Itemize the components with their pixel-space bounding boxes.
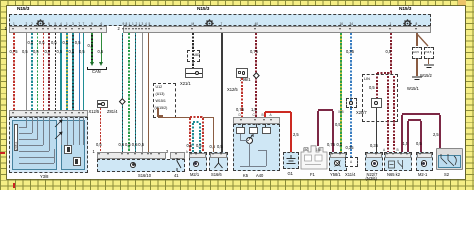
ground connector box 2 xyxy=(424,47,434,59)
pin number xyxy=(91,22,93,27)
drawing sheet xyxy=(7,6,465,179)
wire outer loop right leg xyxy=(439,115,440,148)
pin S16/10 c2 xyxy=(175,153,177,155)
wire wire X25/7 to N22/7 xyxy=(376,108,377,152)
W15/1 label xyxy=(407,87,419,92)
S16/10 label xyxy=(138,174,151,179)
wire loop tq/wh left leg xyxy=(192,123,193,152)
wire Y3/8 sensor lead xyxy=(78,117,81,145)
pin A40 xyxy=(263,119,265,121)
gear icon N15/3 xyxy=(205,15,214,33)
M2/1 label xyxy=(190,173,199,178)
connector X11/4 xyxy=(345,157,358,167)
pin S16/10 xyxy=(150,153,152,155)
wire brown stub in U12 box xyxy=(157,108,158,117)
Z81/4 label xyxy=(107,110,117,115)
wire Y3/8 internal link 3 xyxy=(19,144,44,147)
wire gauge label xyxy=(187,144,193,149)
CAN arrow 1 xyxy=(90,62,94,66)
pin strip1 xyxy=(54,28,56,30)
splice Z81/4 diamond xyxy=(119,98,125,104)
ground symbol W15/1 xyxy=(411,76,423,82)
S16/10 strip1 designator xyxy=(93,150,95,155)
orange corner cell xyxy=(458,0,466,6)
pin number xyxy=(123,22,125,27)
wire feed wire mr/wh upper xyxy=(255,33,256,117)
LIN bus dashed box xyxy=(362,74,398,122)
wire left wire tqbk at x73 xyxy=(72,33,73,110)
LIN label xyxy=(364,77,370,82)
A40 gauge symbol xyxy=(246,137,253,144)
pin Y3/8 xyxy=(65,112,67,114)
pin strip2 xyxy=(389,28,391,30)
red tick bottom border xyxy=(13,183,15,188)
pin number xyxy=(13,22,15,27)
S2 switch symbol xyxy=(438,152,462,169)
wire left wire gy at x26.5 xyxy=(26,33,27,110)
pin number xyxy=(149,22,151,27)
F1 internal labels xyxy=(303,148,309,153)
wire loop rd/wh right leg xyxy=(202,118,203,152)
wire gauge label xyxy=(416,142,422,147)
wire Y3/8 sensor lead xyxy=(72,117,75,145)
wire loop rd/wh left leg xyxy=(189,118,190,152)
gear icon N15/3 xyxy=(403,15,412,33)
wire left wire tq at x83.5 xyxy=(83,33,84,110)
wire gauge label xyxy=(346,50,354,55)
wire Y3/8 internal wire b1 xyxy=(53,155,56,163)
wire A40 internal 1 xyxy=(241,124,244,127)
wire shielded wire bk/wh xyxy=(192,33,193,68)
connector X12/5 b xyxy=(236,68,248,78)
wire A40 internal 9 xyxy=(265,150,268,166)
wire cluster wire tqbk xyxy=(122,33,123,152)
wire left wire rdwh at x14 xyxy=(13,33,14,110)
pin letter B xyxy=(397,148,399,153)
pin N65k2 xyxy=(392,153,394,155)
K5 label xyxy=(243,174,248,179)
wire gauge label xyxy=(10,50,18,55)
S16/10 connector strip 2 xyxy=(170,152,185,159)
K5/A40 connector strip xyxy=(233,117,280,124)
pin letters xyxy=(239,113,241,118)
control unit N15/3 box xyxy=(9,14,431,26)
wire bl/wh wire to X11/4 xyxy=(350,33,351,157)
pin number xyxy=(83,22,85,27)
pin number xyxy=(340,22,344,27)
M2-1 motor symbol xyxy=(421,160,428,167)
G1 symbol xyxy=(285,155,297,166)
wire left wire tq at x61 xyxy=(60,33,61,110)
pin number xyxy=(255,22,259,27)
N65k2 relay symbol xyxy=(387,159,409,170)
wire loop tq/wh top xyxy=(193,121,200,122)
pin number xyxy=(136,22,138,27)
pin number xyxy=(60,22,62,27)
wire gauge label xyxy=(69,50,75,55)
label N15/3 right xyxy=(399,8,411,13)
wire Y3/8 internal wire b0 xyxy=(53,149,56,157)
Z96/1 label xyxy=(240,78,250,83)
wire outer loop left leg xyxy=(401,115,402,152)
pin strip2 xyxy=(132,28,134,30)
wire Y3/8 internal wire 0 xyxy=(25,117,28,127)
S2 inner blue xyxy=(438,155,461,168)
wire gauge label xyxy=(51,41,57,46)
wire gauge label xyxy=(63,41,69,46)
wire X12/5 red wire xyxy=(100,108,101,153)
strip 2 designator xyxy=(118,27,120,32)
pin number xyxy=(66,22,68,27)
wire gauge label xyxy=(369,86,375,91)
wire left wire rdwh at x43.3 xyxy=(43,33,44,110)
pin number xyxy=(416,22,418,27)
red tick left border xyxy=(0,152,5,154)
wire CAN-L gn/bk xyxy=(91,33,92,62)
Y3/8 rotated text xyxy=(14,142,19,150)
S16/10 strip2 designator xyxy=(166,150,168,155)
wire bl/wh wire through X25 xyxy=(350,99,351,107)
A40 fuse sub-box 1 xyxy=(236,127,245,134)
wire gauge label xyxy=(293,133,299,138)
pin number xyxy=(139,22,141,27)
S16/6 component box xyxy=(209,152,228,171)
pin strip2 xyxy=(141,28,143,30)
wire inner loop right leg xyxy=(420,121,421,152)
wire Y3/8 sensor lead xyxy=(60,117,63,145)
wire gauge label xyxy=(138,143,144,148)
wire gauge label xyxy=(335,123,341,128)
X25/7 label xyxy=(356,111,367,116)
wire A40 internal 6 xyxy=(252,134,255,137)
pin strip1 xyxy=(47,28,49,30)
pin strip2 xyxy=(254,28,256,30)
wire brown link U12 stub xyxy=(158,115,163,116)
wire cluster wire tqbk xyxy=(135,33,136,152)
wire inner loop left leg xyxy=(407,121,408,152)
wire ground wire W15/1 upper xyxy=(416,33,417,46)
pin number xyxy=(221,22,223,27)
Y3/8 outer dashed box xyxy=(9,117,88,173)
wire feed wire rd/wh from X12/5 xyxy=(241,78,242,117)
M2-1 component box xyxy=(416,152,433,171)
wire A40 internal 5 xyxy=(240,139,249,142)
wire brown ground wire drop to S16/6 xyxy=(213,118,214,153)
wire A40 internal 10 xyxy=(258,149,266,152)
K5/A40 dashed box xyxy=(233,124,280,171)
wire gauge label xyxy=(39,41,45,46)
pin N65k2 xyxy=(406,153,408,155)
wire Y3/8 internal link b0 xyxy=(19,156,55,159)
wire gauge label xyxy=(75,41,81,46)
wire A40 internal 7 xyxy=(248,143,251,166)
pin M2/1 xyxy=(195,153,197,155)
pin strip1 xyxy=(59,28,61,30)
pin number xyxy=(42,22,44,27)
N3/6 label xyxy=(366,177,377,182)
pin strip1 xyxy=(71,28,73,30)
G1 battery box xyxy=(283,152,299,169)
pin number xyxy=(142,22,144,27)
wire cluster wire gy xyxy=(142,33,143,152)
pin N22/7 xyxy=(375,153,377,155)
wire Y3/8 internal link b1 xyxy=(19,162,55,165)
wire loop tq/wh right leg xyxy=(199,123,200,152)
wire Y3/8 internal link 2 xyxy=(19,138,38,141)
pin S16/6 xyxy=(220,153,222,155)
wire gauge label xyxy=(251,108,257,113)
pin Y3/8 xyxy=(47,112,49,114)
wire brown ground wire horizontal xyxy=(158,117,214,118)
wire Y3/8 internal wire 1 xyxy=(31,117,34,133)
pin strip1 xyxy=(12,28,14,30)
X12/5 b label xyxy=(227,88,238,93)
wire gauge label xyxy=(370,144,378,149)
wire gauge label xyxy=(119,143,125,148)
pin strip1 xyxy=(42,28,44,30)
wire gauge label xyxy=(196,144,202,149)
pin strip2 xyxy=(220,28,222,30)
connector strip 2 of N15/3 xyxy=(123,26,431,33)
X25 label xyxy=(338,110,344,115)
CAN arrow 2 xyxy=(99,62,103,66)
wire gauge label xyxy=(88,44,94,49)
pin strip2 xyxy=(415,28,417,30)
N22/7 component box xyxy=(365,152,383,171)
wire gauge label xyxy=(79,50,85,55)
ground connector box 1 xyxy=(412,47,422,59)
A40 label xyxy=(256,174,263,179)
41 label xyxy=(174,174,179,179)
pin number xyxy=(37,22,39,27)
wire loop rd/wh top xyxy=(190,116,203,117)
X12/5 label xyxy=(89,110,100,115)
pin strip1 xyxy=(65,28,67,30)
Y3/8 variable arrows xyxy=(53,119,65,141)
S16/6 label xyxy=(211,173,222,178)
CAN brace xyxy=(87,67,107,70)
wire gauge label xyxy=(327,143,335,148)
pin strip2 xyxy=(191,28,193,30)
wire LIN maroon horizontal xyxy=(377,72,392,73)
pin Y3/8 xyxy=(12,112,14,114)
wire gauge label xyxy=(22,50,28,55)
wire gauge label xyxy=(337,143,343,148)
wire gauge label xyxy=(346,146,354,151)
wire Y3/8 internal link 4 xyxy=(19,150,50,153)
Y3/8 connector strip xyxy=(9,110,88,117)
N22/7 label xyxy=(367,173,378,178)
A40 fuse sub-box 3 xyxy=(262,127,271,134)
wire left wire grwh at x37.5 xyxy=(37,33,38,110)
wire gauge label xyxy=(28,41,34,46)
pin number xyxy=(129,22,131,27)
pin strip2 xyxy=(148,28,150,30)
connector X21/1 xyxy=(185,68,203,78)
wire gauge label xyxy=(125,143,131,148)
wire A40 internal 8 xyxy=(240,165,266,168)
wire gauge label xyxy=(236,108,244,113)
wire inner loop top xyxy=(408,119,421,120)
pin number xyxy=(350,22,354,27)
connector X25 on wire xyxy=(346,98,357,108)
pin number xyxy=(78,22,80,27)
wire gauge label xyxy=(433,133,439,138)
label N15/3 middle xyxy=(197,8,209,13)
wire black wire strip2 to S16/6 xyxy=(221,33,222,152)
G1 label xyxy=(288,172,293,177)
Y58/1 symbol xyxy=(334,160,340,166)
Y3/8 left solenoid sub-box xyxy=(12,120,57,170)
pin S16/10 xyxy=(134,153,136,155)
pin Y3/8 xyxy=(82,112,84,114)
S16/10 symbol xyxy=(130,162,136,168)
pin Y3/8 xyxy=(54,112,56,114)
wire gauge label xyxy=(57,50,63,55)
border grid frame xyxy=(0,0,474,190)
pin Y3/8 xyxy=(59,112,61,114)
pin M2-1 xyxy=(419,153,421,155)
wire LIN maroon drop to X25/7 xyxy=(376,73,377,98)
pin S16/10 xyxy=(107,153,109,155)
wire Y3/8 internal wire 2 xyxy=(36,117,39,139)
wire Y3/8 internal link 1 xyxy=(19,132,33,135)
wire A40 internal 3 xyxy=(264,124,267,127)
wire LIN pair wire B xyxy=(393,76,394,152)
pin strip1 xyxy=(30,28,32,30)
Y3/8 internal terminal box xyxy=(14,124,18,151)
wire gauge label xyxy=(386,50,392,55)
wire cluster wire grwh xyxy=(128,33,129,152)
CAN label xyxy=(92,70,101,75)
Y58/1 label xyxy=(330,173,341,178)
pin S16/10 xyxy=(158,153,160,155)
wire Y3/8 sensor lead xyxy=(82,117,85,145)
M2/1 component box xyxy=(189,152,207,171)
pin S16/10 xyxy=(98,153,100,155)
gear icon N15/3 xyxy=(36,15,45,33)
shield box U87 xyxy=(187,50,200,62)
wire A40 internal 4 xyxy=(239,134,242,140)
pin strip2 xyxy=(128,28,130,30)
pin number xyxy=(31,22,33,27)
splice Z96/1 diamond xyxy=(253,72,259,78)
wire A40 internal 2 xyxy=(255,124,258,127)
ground symbol W15/2 xyxy=(423,64,435,70)
pin strip1 xyxy=(82,28,84,30)
Y3/8 label xyxy=(40,175,48,180)
pin A40 xyxy=(254,119,256,121)
wire gauge label xyxy=(250,50,258,55)
wire Y3/8 internal wire 4 xyxy=(48,117,51,151)
wire gn/ye wire xyxy=(340,33,341,152)
connector strip 1 of N15/3 xyxy=(9,26,107,33)
ground reference box U12/W15 xyxy=(153,83,176,118)
wire left wire mrwh at x49 xyxy=(48,33,49,110)
connector X25/7 xyxy=(371,98,382,108)
pin number xyxy=(145,22,147,27)
wire gauge label xyxy=(96,143,102,148)
pin letter A xyxy=(383,148,385,153)
wire loop F1 left leg xyxy=(317,111,318,146)
pin M2/1 xyxy=(190,153,192,155)
wire gauge label xyxy=(217,145,223,150)
wire ground wire W15/1 lower xyxy=(416,59,417,76)
pin S16/6 xyxy=(212,153,214,155)
S16/6 symbol xyxy=(212,158,225,170)
pin number xyxy=(55,22,57,27)
wire LIN pair wire A xyxy=(387,76,388,152)
pin N65k2 xyxy=(386,153,388,155)
pin number xyxy=(132,22,134,27)
pin number xyxy=(72,22,74,27)
wire left wire tqwh at x32 xyxy=(31,33,32,110)
pin strip2 xyxy=(135,28,137,30)
pin Y58/1 xyxy=(331,153,333,155)
S16/10 switch 41 xyxy=(172,158,184,171)
wire gauge label xyxy=(210,145,216,150)
pin strip2 xyxy=(349,28,351,30)
pin number xyxy=(192,22,195,27)
pin strip2 xyxy=(138,28,140,30)
wire left wire tqye at x67 xyxy=(66,33,67,110)
wire gauge label xyxy=(45,50,51,55)
Y3/8 right sensor sub-box xyxy=(61,120,85,170)
wire left wire bl at x79.3 xyxy=(79,33,80,110)
pin Y3/8 xyxy=(36,112,38,114)
wire red feed horizontal xyxy=(265,111,291,113)
pin number xyxy=(26,22,28,27)
wire loop F1 top xyxy=(318,109,333,110)
pin number xyxy=(101,22,103,27)
M2-1 label xyxy=(418,173,427,178)
wire red feed drop to G1 xyxy=(290,112,292,152)
pin A40 xyxy=(270,119,272,121)
wire LIN maroon vertical from strip xyxy=(390,33,391,72)
pin strip2 xyxy=(339,28,341,30)
pin S16/10 xyxy=(121,153,123,155)
W15/2 label xyxy=(420,74,432,79)
pin strip2 xyxy=(122,28,124,30)
wire gauge label xyxy=(132,143,138,148)
Y58/1 component box xyxy=(329,152,347,171)
pin strip1 xyxy=(36,28,38,30)
connector X12/5 xyxy=(97,100,108,108)
wire Y3/8 internal link 0 xyxy=(19,126,27,129)
pin letter A M2/1 xyxy=(186,150,188,155)
pin Y3/8 xyxy=(71,112,73,114)
wire Y3/8 internal wire 3 xyxy=(42,117,45,145)
wire red feed stub xyxy=(264,112,266,117)
wire ground wire W15/2 lower xyxy=(428,59,429,64)
M2/1 motor symbol xyxy=(193,161,200,168)
pin Y58/1 xyxy=(339,153,341,155)
S16/10 connector strip 1 xyxy=(97,152,166,159)
S2 outer box xyxy=(436,148,463,170)
wire gauge label xyxy=(98,50,104,55)
F1 fuse box outline xyxy=(300,145,328,172)
pin number xyxy=(48,22,50,27)
wire left wire bkwh at x55.5 xyxy=(55,33,56,110)
pin Y3/8 xyxy=(30,112,32,114)
wire brown ground wire vertical xyxy=(148,33,149,152)
S16/10 body xyxy=(97,159,185,172)
Y3/8 speed sensor 1 xyxy=(64,145,72,154)
pin strip1 xyxy=(100,28,102,30)
N65 k2 component box xyxy=(384,152,412,171)
pin strip2 xyxy=(125,28,127,30)
wire outer loop top xyxy=(402,113,440,114)
